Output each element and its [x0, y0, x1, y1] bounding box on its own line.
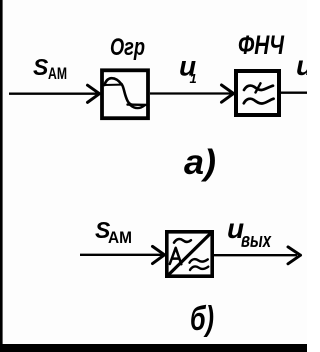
arrowhead into LPF [222, 85, 234, 102]
arrowhead into detector [153, 246, 165, 263]
block Огр (limiter) [102, 70, 148, 118]
wire u1 [150, 92, 231, 94]
svg-text:вых: вых [241, 230, 272, 252]
svg-text:S: S [33, 54, 49, 80]
block amplitude detector [167, 232, 212, 276]
wire output u (a) [281, 92, 307, 94]
detector output symbol: double tilde [190, 259, 209, 270]
svg-text:АМ: АМ [48, 64, 67, 83]
wire output b [214, 254, 297, 256]
label u_vyx [227, 213, 272, 252]
detector diagonal [168, 232, 213, 276]
wire input b [80, 254, 162, 256]
limiter clipped-sine symbol [105, 78, 149, 108]
arrowhead output b [288, 247, 301, 264]
svg-text:а): а) [184, 143, 216, 182]
svg-text:ФНЧ: ФНЧ [238, 30, 285, 60]
svg-text:1: 1 [190, 71, 197, 86]
page edge bars (scan border) [0, 0, 3, 352]
block ФНЧ (low-pass filter) [236, 71, 279, 115]
label u1 [179, 51, 197, 87]
svg-text:Огр: Огр [110, 34, 145, 61]
label S_AM (diagram b) [95, 217, 132, 247]
detector input symbol: tilde over A [174, 239, 191, 243]
arrowhead into limiter [88, 85, 100, 102]
wire input a [9, 93, 97, 95]
label S_AM (diagram a) [33, 54, 67, 83]
detector letter A [170, 248, 182, 264]
svg-text:б): б) [190, 300, 214, 338]
svg-text:u: u [296, 50, 307, 81]
LPF symbol: crossed tilde over plain tilde [244, 83, 274, 103]
svg-text:АМ: АМ [108, 228, 132, 247]
